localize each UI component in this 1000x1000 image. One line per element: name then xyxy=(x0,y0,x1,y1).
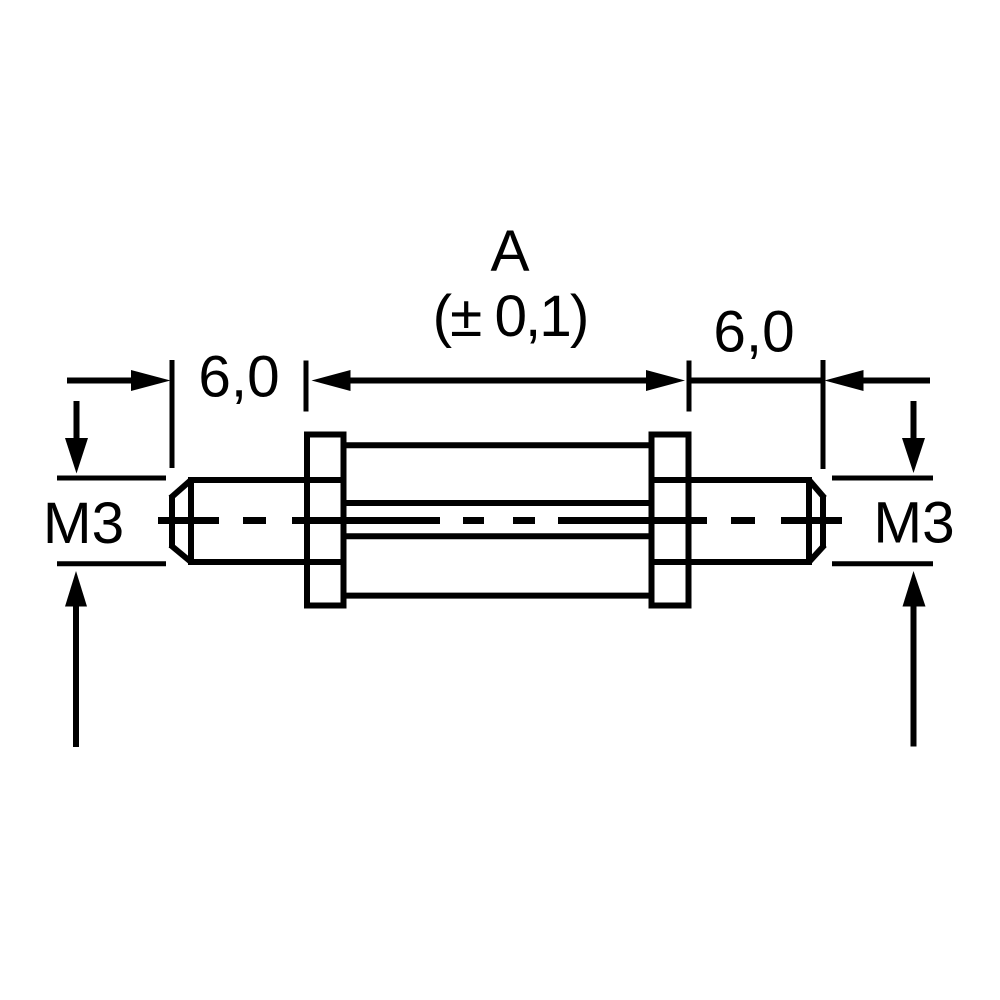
svg-text:6,0: 6,0 xyxy=(713,300,794,365)
svg-text:M3: M3 xyxy=(873,491,954,556)
svg-text:6,0: 6,0 xyxy=(198,345,279,410)
svg-text:M3: M3 xyxy=(43,491,124,556)
svg-text:(± 0,1): (± 0,1) xyxy=(433,284,588,349)
svg-text:A: A xyxy=(490,219,529,284)
